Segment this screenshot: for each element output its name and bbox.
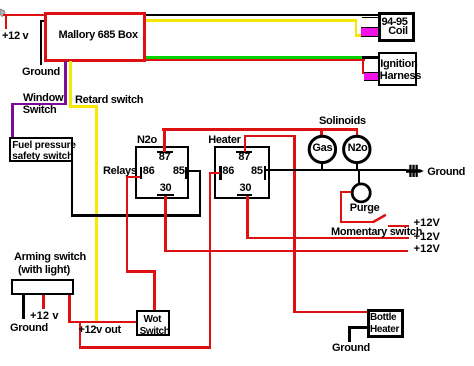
pin 86 bar Heater — [219, 166, 221, 180]
label Ignition — [380, 59, 417, 70]
solenoid Gas — [306, 133, 340, 166]
label safety switch — [12, 151, 73, 162]
pin 30 bar Heater — [237, 194, 253, 196]
wire purple horizontal — [11, 103, 67, 105]
wire red bridge to long vertical — [244, 135, 296, 137]
label Ground (Mallory) — [22, 67, 60, 78]
wire yellow retard long vertical — [95, 105, 98, 321]
box Mallory 685 Box — [44, 12, 146, 62]
momentary switch blade — [371, 212, 388, 224]
label Ground (arming) — [10, 323, 48, 334]
wire red 87 feed horizontal — [162, 128, 358, 131]
cursor icon — [0, 8, 8, 18]
wire red N2o 30 drop — [164, 196, 166, 251]
label Purge — [350, 203, 380, 214]
pin 85 bar N2o — [185, 167, 187, 179]
wire red heater 86 lead — [209, 172, 220, 174]
wire yellow to coil — [146, 19, 357, 21]
label 86 N2o — [143, 166, 155, 177]
label 87 N2o — [159, 152, 171, 163]
pin 86 bar N2o — [140, 167, 142, 179]
label Switch (wot) — [140, 326, 170, 337]
label Switch (window) — [23, 105, 57, 116]
label N2o relay — [137, 135, 157, 146]
label 87 Heater — [238, 152, 250, 163]
wire red drop to Gas solenoid — [320, 130, 322, 137]
label Retard switch — [75, 95, 143, 106]
box relay N2o — [135, 146, 190, 199]
label Mallory 685 Box — [59, 30, 138, 41]
wire red down to Wot switch — [153, 270, 155, 310]
label +12 v (arming) — [30, 311, 59, 322]
purge solenoid — [350, 182, 373, 204]
wire red drop to N2o solenoid — [356, 130, 358, 137]
wire green from Mallory — [146, 56, 362, 58]
wire yellow coil bottom — [355, 34, 363, 37]
label Ground (right) — [427, 167, 465, 178]
label Arming switch — [14, 252, 86, 263]
box Fuel pressure safety switch — [9, 137, 73, 162]
label +12 v — [2, 31, 28, 42]
wire bottle heater ground horizontal — [348, 326, 367, 328]
wire black connector stub under coil wire — [362, 17, 377, 18]
label Bottle — [370, 312, 396, 323]
wire red from Mallory to ignition — [146, 59, 365, 61]
ground symbol — [405, 163, 427, 179]
wire arming ground stub — [22, 295, 24, 319]
box Ignition Harness — [378, 52, 418, 86]
label Heater (bottle) — [370, 324, 399, 335]
wire ground bus — [266, 169, 406, 171]
wire Mallory ground vertical — [40, 20, 42, 65]
label +12v out — [78, 325, 121, 336]
box Bottle Heater — [367, 309, 404, 337]
wire purge stub from ground bus — [358, 171, 360, 184]
label Fuel pressure — [12, 140, 76, 151]
label Window — [23, 93, 63, 104]
wire red to momentary switch — [340, 221, 373, 223]
label Gas — [312, 143, 332, 154]
wire red relays vertical — [126, 176, 128, 273]
label Solinoids — [319, 116, 366, 127]
pin 85 bar Heater — [264, 166, 266, 180]
wire red +12V line (N2o 30) — [164, 250, 407, 252]
box arming switch — [11, 279, 74, 295]
label Ground (bottle) — [332, 343, 370, 354]
wire Gas solenoid ground stub — [321, 163, 323, 170]
wire magenta coil connector — [361, 27, 378, 36]
wire magenta ignition connector — [364, 72, 378, 80]
wire red to bottle heater — [293, 311, 367, 313]
wire black N2o pin85 lead — [187, 170, 202, 172]
wire red heater 30 drop — [246, 196, 248, 239]
label N2o solenoid — [348, 143, 368, 154]
wire N2o solenoid ground stub — [356, 163, 358, 170]
wire yellow retard drop — [69, 61, 72, 107]
node +12v terminal stub — [5, 14, 7, 29]
wire Mallory ground hook — [40, 20, 45, 22]
wire red relays to pin86 — [126, 176, 140, 178]
wire bottle heater ground vertical — [348, 326, 350, 342]
label +12V (momentary) — [414, 218, 440, 229]
label Relays — [103, 166, 137, 177]
label 85 N2o — [173, 166, 185, 177]
wire black to coil — [146, 14, 378, 16]
wire red heater 86 long vertical — [209, 172, 211, 349]
label Harness — [380, 71, 421, 82]
label Coil — [388, 26, 408, 37]
box 94-95 Coil — [378, 12, 416, 42]
wire red purge lead — [340, 191, 352, 193]
label 85 Heater — [251, 166, 263, 177]
label 30 Heater — [240, 183, 252, 194]
wire red branch from +12v out — [79, 323, 81, 349]
wire red long vertical to bottle heater — [293, 135, 295, 313]
label 30 N2o — [160, 183, 172, 194]
wire red momentary switch output — [388, 225, 409, 227]
wire red drop to N2o 87 — [163, 128, 166, 152]
solenoid N2o — [340, 133, 374, 166]
pin 87 bar Heater — [236, 151, 252, 153]
wire red +12V line (heater 30) — [246, 237, 409, 239]
wire black bus horizontal — [71, 214, 201, 216]
wire red heater 87 drop — [244, 135, 246, 152]
box relay Heater — [214, 146, 270, 198]
wire black extension to ignition — [362, 56, 378, 58]
wire red arming lamp stub — [42, 295, 44, 309]
pin 30 bar N2o — [157, 194, 174, 196]
wire red purge vertical — [340, 191, 342, 223]
wire red bottom horizontal — [79, 346, 211, 348]
box Wot Switch — [136, 310, 169, 336]
wire red ignition drop — [362, 59, 364, 74]
label 94-95 — [382, 17, 408, 28]
wire black bus up to pin85 — [199, 170, 201, 216]
label +12V (N2o 30) — [414, 244, 440, 255]
wire black fuel switch down — [71, 162, 73, 216]
wire purple retard drop from Mallory — [64, 61, 66, 105]
label Heater relay — [208, 135, 240, 146]
label +12V (heater 30) — [414, 232, 440, 243]
wire yellow coil drop — [355, 19, 358, 36]
wire red +12v out horizontal — [68, 321, 138, 323]
wire +12v feed to Mallory — [3, 14, 44, 16]
label Wot — [144, 314, 162, 325]
wire red arming output vertical — [68, 295, 70, 323]
label (with light) — [18, 265, 70, 276]
wire yellow retard horizontal — [69, 105, 97, 108]
label Momentary switch — [331, 227, 422, 238]
label 86 Heater — [222, 166, 234, 177]
wire red relays jog horizontal — [126, 270, 156, 272]
pin 87 bar N2o — [157, 151, 174, 153]
wire purple down to fuel switch — [11, 103, 13, 138]
